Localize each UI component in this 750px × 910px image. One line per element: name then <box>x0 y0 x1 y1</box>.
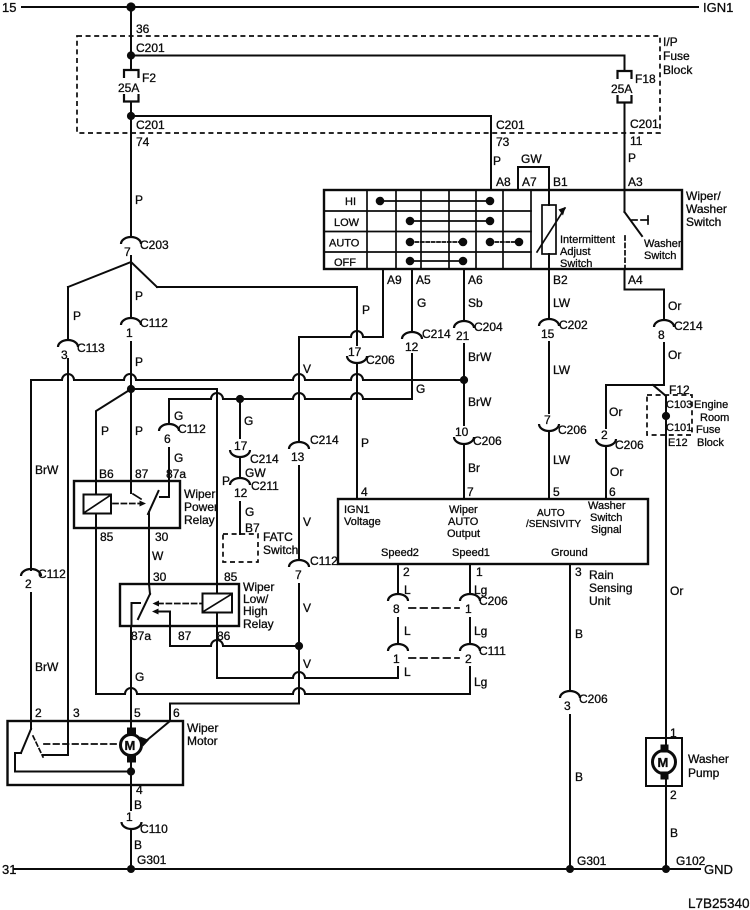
connector C111 pin 2 (pair) <box>460 644 506 666</box>
wire P to C113 <box>67 287 69 340</box>
svg-text:Washer: Washer <box>644 238 682 250</box>
wire C214-12 down to G rail <box>411 354 413 358</box>
svg-text:36: 36 <box>136 22 150 36</box>
connector C111 pin 1 <box>388 644 408 666</box>
svg-text:C101: C101 <box>666 422 692 434</box>
svg-text:Or: Or <box>609 405 622 419</box>
connector C112 pin 1 <box>121 316 168 340</box>
svg-text:15: 15 <box>541 327 555 341</box>
wire C113 down to motor pin 3 (hops BrW rail) <box>67 359 69 721</box>
low/high relay contact 87a <box>132 603 141 626</box>
node split below C203 <box>68 256 157 318</box>
wire C206-17 down to rain unit pin 4 <box>356 363 358 499</box>
svg-text:LOW: LOW <box>334 217 360 229</box>
svg-text:B7: B7 <box>245 521 260 535</box>
svg-text:12: 12 <box>405 340 419 354</box>
svg-text:Or: Or <box>668 299 681 313</box>
washer pump box <box>646 738 682 786</box>
svg-text:17: 17 <box>234 439 248 453</box>
G rail (hops at 217,299,357) <box>169 357 412 424</box>
svg-text:IGN1: IGN1 <box>344 504 370 516</box>
connector C214 pin 17 <box>230 439 279 466</box>
wiper power relay box <box>74 481 180 528</box>
svg-text:Lg: Lg <box>474 624 487 638</box>
wire G rail junction down to C214-17 <box>239 399 241 438</box>
svg-text:Block: Block <box>663 63 693 77</box>
svg-text:1: 1 <box>126 326 133 340</box>
svg-text:C204: C204 <box>474 320 503 334</box>
svg-text:Fuse: Fuse <box>663 49 690 63</box>
wire A5 G column <box>411 269 413 332</box>
connector C113 pin 3 <box>58 340 105 362</box>
svg-text:4: 4 <box>361 485 368 499</box>
dashed connector line C206 8-1 <box>409 607 459 609</box>
wire C202-15 down to C206-7 <box>548 342 550 413</box>
junction G rail <box>236 395 244 403</box>
svg-text:30: 30 <box>155 530 169 544</box>
svg-text:85: 85 <box>100 530 114 544</box>
svg-text:FATC: FATC <box>263 530 293 544</box>
connector C206 pin 2 <box>596 428 644 452</box>
connector C214 pin 13 <box>289 433 339 464</box>
svg-text:3: 3 <box>73 706 80 720</box>
svg-text:C201: C201 <box>136 41 165 55</box>
svg-text:AUTO: AUTO <box>448 516 479 528</box>
park switch contact (pin 3) <box>43 721 68 755</box>
wire C206-2 down to rain unit pin 6 <box>605 446 607 499</box>
svg-text:A7: A7 <box>522 175 537 189</box>
wire junction to relay B6 <box>96 389 131 481</box>
wire Or branch left to C206-2 <box>606 385 664 428</box>
engine room fuse block dashed box <box>647 395 692 435</box>
svg-text:M: M <box>658 755 669 770</box>
svg-text:2: 2 <box>601 428 608 442</box>
wire C204-21 down to C206-10 <box>463 344 465 425</box>
junction BrW rail / A6 wire <box>460 376 468 384</box>
svg-text:11: 11 <box>630 134 643 148</box>
svg-text:G301: G301 <box>137 853 167 867</box>
wire Or into engine room fuse block <box>653 385 666 738</box>
svg-text:Or: Or <box>668 348 681 362</box>
svg-text:Unit: Unit <box>589 594 611 608</box>
svg-text:3: 3 <box>61 348 68 362</box>
wire Speed1 Lg down to C206-1 <box>469 564 471 594</box>
svg-text:Wiper: Wiper <box>187 721 218 735</box>
svg-text:A5: A5 <box>416 273 431 287</box>
wire B2 LW column <box>548 269 550 319</box>
svg-text:G: G <box>244 414 253 428</box>
connector C206 pin 10 <box>454 425 502 448</box>
svg-text:4: 4 <box>136 783 143 797</box>
wire L between C206-8 and C111-1 <box>397 618 399 644</box>
svg-text:C112: C112 <box>38 567 66 581</box>
svg-text:LW: LW <box>553 453 571 467</box>
wire C214-8 down to Or junction <box>663 343 665 385</box>
svg-text:1: 1 <box>476 565 483 579</box>
wire W from power relay 30 to low/high relay 30 <box>148 528 150 584</box>
svg-text:Sensing: Sensing <box>589 581 632 595</box>
svg-text:F12: F12 <box>669 383 690 397</box>
svg-text:Switch: Switch <box>590 512 622 524</box>
svg-text:P: P <box>135 289 143 303</box>
svg-text:B2: B2 <box>553 273 568 287</box>
svg-text:C112: C112 <box>310 554 338 568</box>
svg-text:1: 1 <box>465 602 472 616</box>
wire from IGN1 rail into fuse block <box>130 7 132 69</box>
wire C110-1 down to G301 <box>130 829 132 869</box>
svg-text:C206: C206 <box>579 692 608 706</box>
svg-text:G102: G102 <box>676 854 706 868</box>
svg-text:B: B <box>575 770 583 784</box>
connector C206 pin 3 <box>560 691 608 713</box>
svg-text:/SENSIVITY: /SENSIVITY <box>526 519 581 530</box>
svg-text:V: V <box>303 515 311 529</box>
svg-text:F18: F18 <box>635 72 656 86</box>
svg-text:BrW: BrW <box>468 350 492 364</box>
svg-text:AUTO: AUTO <box>329 238 360 250</box>
svg-text:1: 1 <box>393 652 400 666</box>
svg-text:C214: C214 <box>250 452 279 466</box>
power relay armature blade <box>148 491 159 528</box>
BrW rail (hops at 68,130,299,357) <box>31 374 464 570</box>
wire 87a G down to motor pin 5 (hops 85 horizontal) <box>130 626 132 721</box>
svg-text:Or: Or <box>610 465 623 479</box>
svg-text:25A: 25A <box>611 82 632 96</box>
svg-text:6: 6 <box>173 706 180 720</box>
wire GW between C214-17 and C211-12 <box>239 457 241 478</box>
svg-text:Power: Power <box>184 500 218 514</box>
wire Speed2 L down to C206-8 <box>397 564 399 594</box>
svg-text:P: P <box>101 424 109 438</box>
svg-text:8: 8 <box>658 328 665 342</box>
park switch to motor-return wire <box>15 753 131 772</box>
svg-text:6: 6 <box>164 432 171 446</box>
FATC switch dashed box <box>223 534 258 562</box>
wire ground rail <box>14 868 700 870</box>
svg-text:BrW: BrW <box>35 660 59 674</box>
svg-text:Wiper: Wiper <box>449 504 478 516</box>
wire motor pin 5 stub <box>130 721 132 728</box>
svg-text:Washer: Washer <box>588 500 626 512</box>
fuse F2 <box>118 70 156 102</box>
svg-text:87: 87 <box>135 467 149 481</box>
svg-text:C110: C110 <box>140 822 168 836</box>
svg-text:C202: C202 <box>559 318 588 332</box>
wire C112-2 down to motor pin 2 <box>30 593 32 721</box>
svg-text:Rain: Rain <box>589 568 614 582</box>
svg-text:B: B <box>134 838 142 852</box>
wire V down to C112-7 <box>298 466 300 560</box>
svg-text:87: 87 <box>178 629 192 643</box>
wire V junction down to motor pin 6 <box>170 646 299 721</box>
svg-text:7: 7 <box>124 245 131 259</box>
svg-text:13: 13 <box>291 450 305 464</box>
svg-text:C113: C113 <box>77 341 105 355</box>
junction on IGN1 rail <box>126 2 135 11</box>
svg-text:C112: C112 <box>140 316 168 330</box>
svg-text:87a: 87a <box>166 467 186 481</box>
wire motor bottom to pin 4 <box>130 762 132 785</box>
svg-text:Switch: Switch <box>263 543 298 557</box>
wire P branch over to x357 <box>157 287 357 345</box>
connector C206 pin 7 <box>539 413 587 437</box>
svg-text:LW: LW <box>553 363 571 377</box>
svg-text:Adjust: Adjust <box>560 246 591 258</box>
motor M armature <box>121 728 150 763</box>
wire washer pump pin 2 down to G102 <box>665 786 667 869</box>
wire A4 Or column <box>625 269 665 320</box>
svg-text:V: V <box>303 362 311 376</box>
junction below motor <box>127 767 135 775</box>
svg-text:V: V <box>303 657 311 671</box>
connector C211 pin 12 <box>230 478 279 500</box>
svg-text:Wiper/: Wiper/ <box>686 189 721 203</box>
wire 86 down right to C111-1 (hops V wire) <box>217 626 398 678</box>
svg-text:Or: Or <box>670 584 683 598</box>
svg-text:Relay: Relay <box>243 617 274 631</box>
connector C112 pin 2 <box>21 567 66 591</box>
svg-text:P: P <box>628 151 636 165</box>
svg-text:25A: 25A <box>118 81 139 95</box>
AUTO contacts <box>406 238 524 247</box>
svg-text:C111: C111 <box>479 644 506 658</box>
svg-text:15: 15 <box>2 0 16 15</box>
svg-text:I/P: I/P <box>663 35 678 49</box>
svg-text:Speed1: Speed1 <box>452 547 490 559</box>
connector C112 pin 6 <box>159 422 206 446</box>
power relay coil actuator dashed <box>113 501 146 507</box>
svg-text:C206: C206 <box>366 353 395 367</box>
svg-text:A6: A6 <box>468 273 483 287</box>
svg-text:P: P <box>73 309 81 323</box>
svg-text:B: B <box>134 798 142 812</box>
svg-text:2: 2 <box>465 652 472 666</box>
svg-text:73: 73 <box>496 135 510 149</box>
svg-text:C201: C201 <box>496 118 525 132</box>
wire V down to junction <box>298 584 300 646</box>
svg-text:21: 21 <box>456 329 470 343</box>
svg-text:C103: C103 <box>666 399 692 411</box>
svg-text:30: 30 <box>153 570 167 584</box>
junction below F2 <box>127 112 135 120</box>
svg-text:6: 6 <box>609 485 616 499</box>
svg-text:17: 17 <box>348 345 362 359</box>
low/high relay coil actuator dashed <box>153 601 202 607</box>
svg-text:E12: E12 <box>668 437 688 449</box>
svg-text:GW: GW <box>245 466 266 480</box>
connector C202 pin 15 <box>539 318 588 341</box>
svg-text:B: B <box>670 826 678 840</box>
svg-text:F2: F2 <box>142 71 156 85</box>
svg-text:C112: C112 <box>178 422 206 436</box>
svg-text:7: 7 <box>544 413 551 427</box>
svg-text:GW: GW <box>521 152 542 166</box>
svg-text:HI: HI <box>345 196 356 208</box>
wiper low/high relay box <box>120 584 239 626</box>
svg-text:C203: C203 <box>140 238 169 252</box>
svg-text:G: G <box>174 451 183 465</box>
OFF contacts <box>406 257 468 266</box>
svg-text:85: 85 <box>224 570 238 584</box>
svg-text:C211: C211 <box>251 479 279 493</box>
junction P net <box>127 385 135 393</box>
svg-text:Lg: Lg <box>474 583 487 597</box>
svg-text:A8: A8 <box>496 175 511 189</box>
svg-text:C201: C201 <box>630 117 659 131</box>
switch grid horizontal lines <box>324 211 531 252</box>
svg-text:Voltage: Voltage <box>344 516 381 528</box>
svg-text:G: G <box>417 296 426 310</box>
wire motor pin 6 diagonal to armature <box>146 721 170 741</box>
svg-text:2: 2 <box>35 706 42 720</box>
intermittent adjust switch (rheostat) <box>537 205 615 270</box>
wire power relay 85 down and right to C111-2 (hops G wire and V wire) <box>96 528 470 694</box>
wire Lg between C206-1 and C111-2 <box>469 618 471 644</box>
wire C206-3 down to G301 <box>569 715 571 869</box>
svg-text:Room: Room <box>700 412 729 424</box>
svg-text:P: P <box>222 474 230 488</box>
connector C112 pin 7 <box>289 554 338 582</box>
svg-text:Intermittent: Intermittent <box>560 234 615 246</box>
svg-text:G: G <box>174 409 183 423</box>
svg-text:P: P <box>362 303 370 317</box>
svg-text:B6: B6 <box>99 467 114 481</box>
wire 87 right to V junction (hops 86 wire) <box>170 626 299 646</box>
wire washer pump terminal stubs <box>665 738 667 746</box>
svg-text:5: 5 <box>134 706 141 720</box>
connector C110 pin 1 <box>122 810 169 836</box>
svg-text:Block: Block <box>697 437 724 449</box>
wire V vertical down to C214-13 <box>298 344 300 442</box>
wire junction down to relay 87 <box>130 389 132 481</box>
svg-text:C206: C206 <box>558 423 587 437</box>
svg-text:C201: C201 <box>136 118 165 132</box>
svg-text:B: B <box>575 627 583 641</box>
low/high relay armature blade <box>138 584 150 619</box>
svg-text:G: G <box>416 382 425 396</box>
svg-text:P: P <box>135 424 143 438</box>
wire C112-6 down to relay 87a <box>168 448 170 481</box>
svg-text:M: M <box>125 738 136 753</box>
wire pin 4 down to C110 <box>130 785 132 810</box>
svg-text:C206: C206 <box>473 434 502 448</box>
svg-text:High: High <box>243 604 268 618</box>
svg-text:B1: B1 <box>553 175 568 189</box>
svg-text:Switch: Switch <box>560 258 592 270</box>
wire C206-7 down to rain unit pin 5 <box>548 431 550 499</box>
fuse F18 <box>611 71 656 103</box>
park switch blade (pin 2) <box>21 721 43 757</box>
svg-text:87a: 87a <box>131 629 151 643</box>
svg-text:A9: A9 <box>387 273 402 287</box>
connector C203 pin 7 <box>121 237 169 259</box>
wire rheostat to B2 <box>548 254 550 269</box>
svg-text:7: 7 <box>467 485 474 499</box>
junction above F2 <box>127 51 135 59</box>
svg-text:8: 8 <box>393 602 400 616</box>
svg-text:Wiper: Wiper <box>184 487 215 501</box>
wire C211-12 down to FATC B7 <box>239 502 241 534</box>
power relay contact 87a <box>160 481 169 497</box>
washer pump motor <box>653 745 676 780</box>
washer switch contact <box>625 190 682 269</box>
wiper motor box <box>8 721 184 785</box>
svg-text:5: 5 <box>553 485 560 499</box>
wire branch to F18 <box>131 56 625 71</box>
LOW contacts <box>406 217 495 226</box>
svg-text:OFF: OFF <box>334 257 356 269</box>
svg-text:P: P <box>361 436 369 450</box>
wire C206-10 down to rain unit pin 7 <box>463 444 465 499</box>
svg-text:3: 3 <box>575 565 582 579</box>
svg-text:12: 12 <box>234 486 248 500</box>
dashed connector line C111 1-2 <box>409 657 459 659</box>
svg-text:Motor: Motor <box>187 734 218 748</box>
wire Ground pin3 down to C206-3 <box>569 564 571 691</box>
svg-text:Br: Br <box>468 461 480 475</box>
svg-text:A3: A3 <box>628 175 643 189</box>
park switch linkage dashed <box>44 743 117 745</box>
svg-text:G: G <box>135 670 144 684</box>
svg-text:W: W <box>152 549 164 563</box>
svg-text:IGN1: IGN1 <box>703 0 733 15</box>
svg-text:C214: C214 <box>674 319 703 333</box>
svg-text:7: 7 <box>295 568 302 582</box>
svg-text:V: V <box>303 601 311 615</box>
svg-text:L: L <box>404 665 411 679</box>
svg-text:1: 1 <box>126 810 133 824</box>
svg-text:C214: C214 <box>310 433 339 447</box>
svg-text:2: 2 <box>25 577 32 591</box>
svg-text:P: P <box>493 154 501 168</box>
connector C214 pin 12 <box>402 327 451 354</box>
junction V net <box>295 642 303 650</box>
svg-text:2: 2 <box>670 788 677 802</box>
wire below F2 <box>130 102 132 238</box>
svg-text:C214: C214 <box>422 327 451 341</box>
svg-text:Washer: Washer <box>686 202 727 216</box>
svg-text:74: 74 <box>136 135 150 149</box>
svg-text:Output: Output <box>447 528 480 540</box>
svg-text:10: 10 <box>455 425 469 439</box>
low/high relay contact 87 <box>152 609 170 627</box>
wiper/washer switch U (outline) <box>324 190 682 269</box>
svg-text:Washer: Washer <box>688 752 729 766</box>
junction inside fuse block <box>662 412 670 420</box>
svg-text:Ground: Ground <box>551 547 588 559</box>
wire below F18 to A3 <box>624 103 626 191</box>
low/high relay coil <box>203 584 233 626</box>
svg-text:L: L <box>404 624 411 638</box>
svg-text:GND: GND <box>704 862 733 877</box>
svg-text:Lg: Lg <box>474 675 487 689</box>
connector C206 pin 8 <box>388 594 408 616</box>
wire junction right and down to low/high relay 85 (hops G rail) <box>131 389 217 584</box>
svg-text:P: P <box>135 193 143 207</box>
svg-text:2: 2 <box>403 565 410 579</box>
svg-text:Fuse: Fuse <box>696 424 720 436</box>
svg-text:Switch: Switch <box>686 215 721 229</box>
wire branch from F2 to A8 <box>131 116 491 190</box>
svg-text:AUTO: AUTO <box>537 508 565 519</box>
GW jumper A7 to B1 <box>518 167 549 205</box>
HI contacts <box>376 197 495 206</box>
power relay contact 87 <box>131 481 141 499</box>
svg-text:Engine: Engine <box>694 399 728 411</box>
svg-text:Sb: Sb <box>468 296 483 310</box>
svg-text:Pump: Pump <box>688 766 720 780</box>
svg-text:G: G <box>245 505 254 519</box>
